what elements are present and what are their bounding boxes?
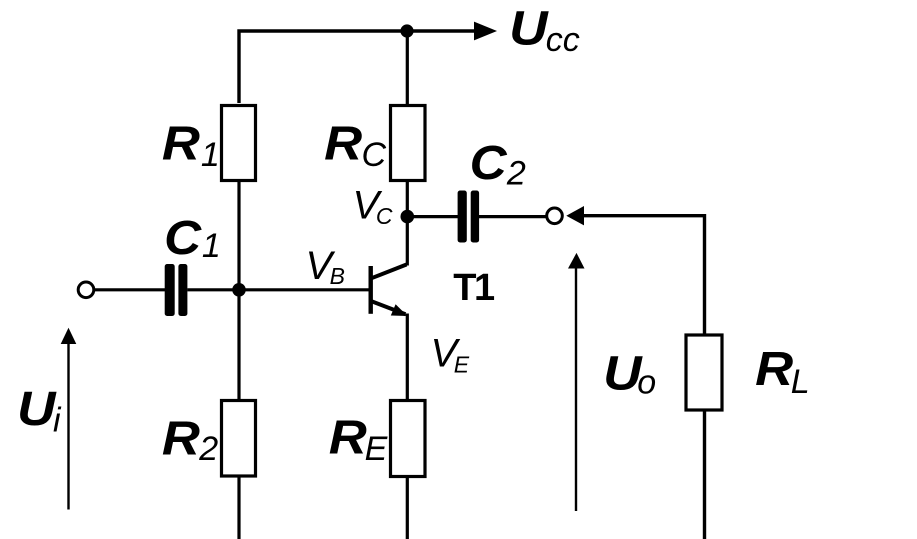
wire C1 to base bbox=[187, 288, 368, 291]
svg-text:R: R bbox=[162, 413, 200, 466]
label VB bbox=[306, 244, 345, 289]
svg-text:1: 1 bbox=[202, 227, 221, 265]
transistor T1 bbox=[369, 265, 408, 317]
wire output to RL bbox=[583, 216, 705, 334]
wire C2 to output terminal bbox=[479, 215, 546, 218]
label R2 bbox=[162, 413, 218, 468]
capacitor C1 bbox=[165, 264, 188, 316]
label R1 bbox=[162, 118, 220, 174]
label RL bbox=[755, 343, 810, 401]
svg-text:T1: T1 bbox=[453, 267, 495, 309]
svg-text:L: L bbox=[791, 363, 810, 401]
capacitor C2 bbox=[458, 191, 480, 243]
wire input terminal to C1 bbox=[94, 288, 165, 291]
output terminal bbox=[547, 208, 563, 224]
Ucc supply arrow bbox=[474, 22, 497, 41]
label T1 bbox=[453, 267, 495, 309]
svg-text:C: C bbox=[376, 203, 393, 229]
svg-text:C: C bbox=[470, 137, 508, 190]
node base junction bbox=[232, 283, 246, 297]
resistor R1 bbox=[222, 106, 256, 181]
wire RC to top rail bbox=[406, 31, 409, 104]
wire top rail bbox=[239, 31, 474, 103]
label C2 bbox=[470, 137, 526, 192]
svg-text:E: E bbox=[454, 351, 470, 377]
wire Vc to C2 bbox=[407, 215, 458, 218]
svg-text:U: U bbox=[17, 383, 57, 436]
label Vc bbox=[353, 183, 393, 229]
wire base node to R2 bbox=[237, 290, 240, 400]
svg-text:2: 2 bbox=[506, 154, 526, 192]
resistor RE bbox=[391, 401, 426, 477]
svg-text:R: R bbox=[324, 118, 362, 171]
svg-text:1: 1 bbox=[201, 136, 220, 174]
wire emitter bbox=[406, 314, 409, 401]
arrow into output terminal bbox=[566, 206, 584, 225]
input terminal bbox=[78, 282, 94, 298]
label Uo bbox=[603, 348, 656, 402]
wire RL to bottom edge bbox=[703, 410, 706, 539]
svg-text:2: 2 bbox=[198, 430, 218, 468]
svg-text:R: R bbox=[329, 412, 367, 465]
label RE bbox=[329, 412, 388, 468]
wire RE to bottom edge bbox=[406, 476, 409, 539]
svg-text:C: C bbox=[164, 212, 202, 265]
svg-text:R: R bbox=[162, 118, 200, 171]
resistor R2 bbox=[222, 401, 256, 477]
label Ui bbox=[17, 383, 62, 439]
wire collector bbox=[406, 181, 409, 266]
svg-text:cc: cc bbox=[546, 21, 580, 59]
wire R2 to bottom edge bbox=[237, 476, 240, 539]
svg-text:B: B bbox=[330, 263, 345, 289]
resistor RL bbox=[686, 335, 722, 410]
svg-text:o: o bbox=[637, 363, 656, 401]
label RC bbox=[324, 118, 386, 175]
label C1 bbox=[164, 212, 221, 265]
node Vc junction bbox=[401, 210, 415, 224]
arrow Uo measure bbox=[568, 253, 585, 511]
svg-text:E: E bbox=[365, 430, 388, 468]
label Ucc bbox=[509, 3, 580, 59]
wire R1 to input node bbox=[237, 181, 240, 291]
svg-text:C: C bbox=[362, 136, 387, 174]
resistor RC bbox=[391, 106, 426, 181]
label VE bbox=[431, 332, 470, 378]
arrow Ui measure bbox=[61, 328, 77, 510]
node top junction bbox=[400, 24, 413, 37]
svg-text:R: R bbox=[755, 343, 793, 396]
svg-text:U: U bbox=[509, 3, 549, 56]
